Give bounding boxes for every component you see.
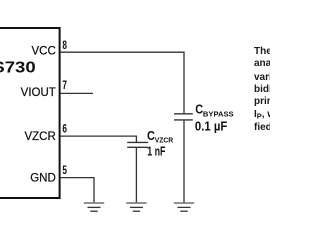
annotation paragraph (clipped at right edge) bbox=[254, 46, 320, 135]
IC U1 ACS730 body (left side clipped) bbox=[0, 28, 60, 198]
svg-text:1 nF: 1 nF bbox=[147, 145, 165, 159]
svg-text:VCC: VCC bbox=[32, 45, 56, 57]
svg-text:ACS730: ACS730 bbox=[0, 60, 36, 77]
svg-text:8: 8 bbox=[62, 38, 67, 52]
svg-text:6: 6 bbox=[62, 122, 67, 136]
ground symbol under C_VZCR bbox=[126, 203, 146, 211]
wire pin5 GND to ground bbox=[60, 178, 94, 203]
svg-text:VZCR: VZCR bbox=[155, 136, 174, 145]
capacitor C_VZCR bbox=[127, 142, 148, 202]
C_BYPASS designator label bbox=[195, 103, 233, 119]
svg-text:5: 5 bbox=[62, 163, 67, 177]
svg-text:VIOUT: VIOUT bbox=[21, 87, 56, 99]
capacitor C_BYPASS bbox=[174, 114, 193, 203]
svg-text:GND: GND bbox=[30, 173, 56, 185]
wire pin7 VIOUT stub bbox=[60, 92, 93, 94]
svg-text:BYPASS: BYPASS bbox=[203, 110, 234, 119]
ground symbol under C_BYPASS bbox=[174, 203, 194, 211]
svg-text:VZCR: VZCR bbox=[24, 131, 55, 143]
svg-text:0.1 µF: 0.1 µF bbox=[195, 119, 227, 134]
wire pin8 VCC to C_BYPASS bbox=[60, 52, 184, 113]
wire pin6 VZCR to C_VZCR bbox=[60, 136, 136, 142]
ground symbol under pin 5 wire bbox=[84, 203, 104, 211]
C_VZCR designator label bbox=[147, 129, 174, 144]
svg-text:7: 7 bbox=[62, 78, 67, 92]
